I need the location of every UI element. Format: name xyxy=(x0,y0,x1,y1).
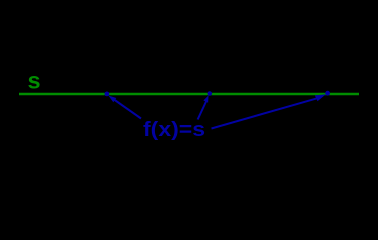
wire arrow 1 to x1 xyxy=(108,96,141,119)
node x3 marker xyxy=(325,91,330,96)
node x2 marker xyxy=(208,91,213,96)
svg-text:f(x)=s: f(x)=s xyxy=(143,118,205,141)
svg-text:s: s xyxy=(28,68,41,94)
node x1 marker xyxy=(105,92,110,97)
wire arrow 3 to x3 xyxy=(212,94,326,128)
horizontal level line y=s xyxy=(19,93,359,95)
wire arrow 2 to x2 xyxy=(198,95,209,119)
